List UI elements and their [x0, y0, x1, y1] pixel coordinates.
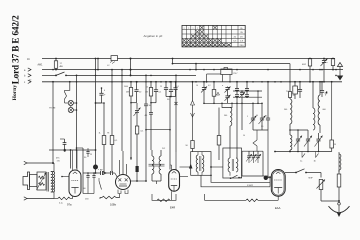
wire drop x53	[52, 81, 54, 164]
wire top bus B1	[42, 58, 335, 60]
resistor R13	[186, 141, 195, 152]
wire feedback y186.8	[201, 175, 270, 187]
resistor R3 col	[107, 69, 118, 173]
resistor R1 ant	[54, 58, 63, 71]
wire x339 down	[338, 152, 340, 172]
switch S1 waveband	[55, 72, 67, 76]
svg-text:20: 20	[293, 95, 295, 97]
resistor R2 col	[96, 103, 106, 173]
trimmer C22	[321, 58, 328, 83]
svg-text:2M: 2M	[126, 92, 129, 94]
heater zigzag V2	[100, 194, 120, 200]
label mgf	[309, 178, 314, 180]
capacitor C2 elco	[96, 87, 107, 103]
cluster2 link	[150, 102, 156, 104]
svg-text:TR 8M: TR 8M	[49, 108, 56, 110]
junction dots	[52, 69, 337, 104]
wire sub-bus y63.6	[172, 63, 290, 65]
ground symbol	[329, 203, 350, 218]
wire drop x76.5	[76, 75, 78, 169]
wire x237 down	[236, 97, 238, 158]
title model Lord 37 B E 642/2 (rotated)	[11, 15, 21, 84]
wire y129.7 avc	[145, 129, 171, 131]
svg-text:25: 25	[160, 86, 162, 88]
svg-text:000: 000	[323, 109, 326, 111]
svg-text:500: 500	[224, 115, 227, 117]
capacitor C14	[239, 90, 245, 98]
wire lamp branch	[65, 81, 71, 90]
label 22	[29, 79, 32, 81]
trimmer C31	[251, 151, 257, 163]
tuning gang C21	[315, 133, 323, 152]
svg-text:500: 500	[284, 109, 287, 111]
wire V3 right1	[180, 175, 189, 177]
label V3	[170, 206, 175, 210]
capacitor C1 on B1	[107, 56, 118, 67]
svg-text:0,2: 0,2	[208, 85, 211, 87]
labels midright	[243, 115, 267, 137]
wire x242 down	[241, 97, 243, 130]
wire bus B2	[42, 69, 343, 71]
wire V4 right	[285, 172, 297, 174]
label AW1	[38, 64, 44, 67]
label lamp	[49, 108, 56, 110]
switch S4	[99, 178, 102, 190]
trimmer C30	[246, 151, 252, 163]
terminal a	[24, 68, 31, 72]
svg-text:60: 60	[84, 188, 86, 190]
labels row under B4	[124, 85, 211, 89]
svg-text:Angaben in µF: Angaben in µF	[144, 34, 163, 38]
switch S5 bandset	[230, 175, 242, 179]
wire T1 bottom	[152, 181, 161, 184]
wire y150	[49, 139, 96, 150]
tuning gang C20	[304, 130, 312, 152]
capacitor C8	[167, 81, 173, 101]
svg-text:n: n	[327, 62, 328, 64]
rect loop caps	[242, 151, 264, 176]
wire drop x98	[97, 58, 99, 71]
wire speaker bottom	[24, 197, 54, 200]
diode arrow x190	[189, 164, 193, 169]
label V1	[59, 203, 72, 207]
label 133	[84, 188, 90, 201]
svg-text:5: 5	[247, 116, 248, 118]
antenna dipole symbol	[337, 63, 342, 80]
svg-text:1M: 1M	[145, 92, 148, 94]
svg-text:25: 25	[90, 154, 92, 156]
cluster1 link	[130, 102, 136, 104]
resistor R12	[337, 170, 341, 201]
potentiometer R11	[317, 180, 326, 202]
row y97.2	[233, 96, 262, 98]
output choke L7	[51, 172, 55, 193]
coil L4	[284, 64, 295, 133]
trimmer tiny x192.5	[191, 101, 195, 141]
trimmer C10	[225, 87, 231, 95]
pickup TA box	[221, 67, 238, 81]
wire drop x146	[144, 75, 151, 182]
capacitor C12	[235, 81, 239, 92]
coil L5	[312, 81, 315, 130]
svg-text:50: 50	[243, 135, 245, 137]
coil L1	[196, 152, 204, 176]
wire x151 down	[145, 103, 153, 150]
capacitor C15	[245, 81, 249, 92]
padder link bottom	[203, 103, 262, 105]
resistor R14 block	[135, 126, 144, 160]
heater zigzag V1	[58, 197, 73, 200]
heater rail	[205, 194, 279, 202]
resistor R6	[212, 81, 219, 103]
capacitor C18	[261, 81, 271, 177]
coil L8	[339, 154, 341, 170]
svg-text:97a: 97a	[67, 203, 72, 207]
cluster3 link	[166, 96, 176, 98]
heater pins V2	[118, 190, 128, 194]
label 25	[90, 154, 92, 156]
trimmer C11	[222, 85, 231, 103]
wire x172.5 stub	[172, 58, 174, 64]
terminal b	[24, 74, 31, 78]
wire tuning bottom	[274, 151, 332, 153]
capacitor C24	[298, 81, 302, 98]
capacitor C4	[126, 81, 142, 103]
coil L4b	[290, 133, 292, 152]
wire x170 down	[169, 96, 171, 170]
terminal label 10	[27, 59, 31, 61]
wire drop x95.5	[95, 58, 97, 174]
tube V3 mixer	[169, 152, 180, 192]
wire x196 stub	[195, 63, 197, 71]
trimmer C17	[259, 103, 266, 131]
tuning gang C19	[294, 130, 302, 152]
capacitor C28	[92, 172, 95, 193]
capacitor C8b	[173, 81, 177, 97]
resistor R5	[149, 81, 152, 103]
IF can T4 frame	[223, 148, 242, 178]
coil L6	[318, 81, 326, 133]
speaker LS	[23, 172, 37, 190]
svg-text:E4R: E4R	[170, 206, 175, 210]
row y91	[233, 90, 262, 92]
grid input V2	[100, 169, 117, 178]
tube V1 output	[61, 150, 81, 197]
IF transformer T1	[149, 150, 165, 181]
U bracket	[221, 103, 233, 108]
svg-text:10Bv: 10Bv	[110, 203, 117, 207]
wire drop x192.5	[192, 81, 194, 101]
svg-text:5000: 5000	[124, 86, 128, 88]
svg-text:AW1: AW1	[38, 64, 44, 67]
wire bus B3	[42, 74, 196, 76]
svg-text:10.: 10.	[27, 59, 31, 61]
wire lamps to x76.5	[73, 102, 77, 111]
wire to pot	[306, 173, 321, 178]
note Angaben in uF	[144, 34, 163, 38]
wire y167 canlink	[211, 166, 223, 168]
svg-text:0,1: 0,1	[177, 86, 180, 88]
voltage table	[182, 25, 245, 47]
wire y130 link	[253, 130, 268, 151]
capacitor C29	[86, 148, 89, 157]
wire x258 v	[257, 90, 259, 104]
wire x54 speaker col	[51, 163, 58, 199]
trimmer C9	[201, 81, 207, 103]
svg-text:9 N022: 9 N022	[247, 185, 253, 187]
wire right x331.7	[331, 81, 333, 140]
wire drop x176 v3grid	[175, 75, 178, 153]
wire tube1 grid	[70, 149, 72, 168]
capacitor C13	[235, 91, 239, 98]
svg-text:50: 50	[146, 87, 148, 89]
tube V2 triode	[116, 151, 131, 190]
resistor R8	[330, 140, 336, 152]
svg-text:14: 14	[196, 85, 198, 87]
lamp LA2	[68, 106, 73, 113]
switch S3	[296, 169, 307, 174]
svg-text:50: 50	[149, 105, 151, 107]
label 90	[84, 157, 87, 159]
capacitor C25	[320, 81, 328, 97]
svg-text:Horny: Horny	[12, 85, 18, 101]
wire y193.5	[83, 193, 94, 195]
heater V3 loop	[152, 191, 176, 201]
wire y74 link	[206, 74, 221, 83]
svg-text:AW: AW	[60, 65, 63, 68]
svg-text:14: 14	[256, 115, 258, 117]
capacitor C3 49n	[56, 139, 66, 160]
trimmer C32	[255, 151, 261, 163]
tube V4 rectifier	[271, 170, 285, 197]
resistor R7	[217, 108, 221, 161]
resistor R4	[129, 81, 132, 103]
wire drop x122	[121, 69, 123, 151]
switch contacts 1a 1b	[300, 152, 319, 163]
svg-text:n: n	[98, 169, 99, 171]
lamp LA1	[65, 100, 74, 105]
capacitor C15b	[245, 91, 249, 98]
capacitor C5 trimmer	[134, 103, 141, 126]
resistor R9	[302, 58, 312, 83]
wire x131 down	[130, 103, 132, 160]
title brand Horny (rotated)	[12, 85, 18, 101]
transformer T4	[228, 158, 238, 176]
wire y173 av	[83, 169, 106, 175]
wire V2 right	[131, 180, 147, 182]
switch S2 lamp	[65, 90, 67, 101]
wire drop x83	[82, 148, 84, 194]
resistor R10	[331, 58, 334, 71]
trimmer C16	[250, 103, 257, 131]
label 2L2	[162, 148, 165, 150]
wire tuning top	[289, 129, 308, 131]
wire drop x130.5	[130, 58, 132, 77]
svg-text:25: 25	[265, 116, 267, 118]
label V2	[110, 203, 117, 207]
label 9 N022	[247, 185, 253, 187]
terminal c	[24, 80, 31, 84]
box Z1	[286, 81, 297, 99]
svg-text:2L2: 2L2	[162, 148, 165, 150]
core lines	[47, 172, 49, 192]
svg-text:EAA: EAA	[275, 206, 281, 210]
wire feedback y182.3	[210, 175, 270, 183]
wire y148 link	[76, 147, 83, 149]
capacitor C6	[145, 81, 162, 103]
wire speaker top	[24, 161, 61, 165]
capacitor C26 black	[136, 160, 139, 181]
capacitor C27	[86, 172, 89, 193]
label V4	[275, 206, 281, 210]
capacitor C7	[164, 81, 168, 97]
IF can T2 frame	[190, 152, 212, 176]
transformer TR1	[37, 172, 47, 190]
blob terminal	[264, 176, 271, 180]
wire bus B4	[42, 81, 342, 83]
svg-text:Lord 37 B E 642/2: Lord 37 B E 642/2	[11, 15, 21, 84]
wire ground link	[321, 200, 340, 202]
wire y167 v3link	[180, 166, 191, 168]
coil L3	[224, 108, 232, 159]
electrolytic blob	[93, 165, 98, 170]
svg-text:PIL7: PIL7	[234, 73, 238, 75]
